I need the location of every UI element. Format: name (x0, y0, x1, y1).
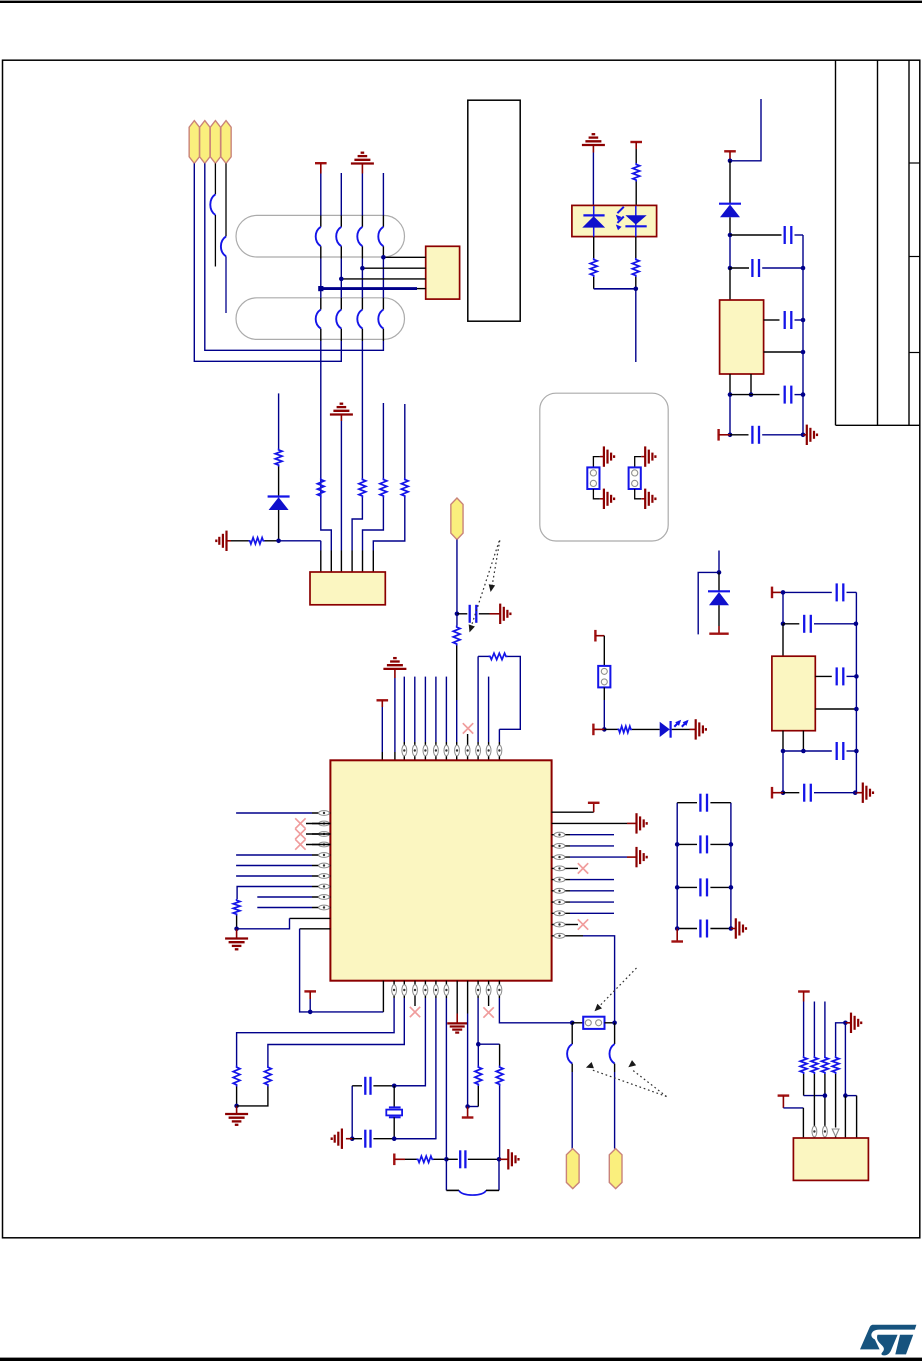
wire MCU top pin x=425.4 (424, 677, 426, 742)
wire L1 net (236, 812, 312, 814)
wire MCU top pin x=404.3 (403, 677, 405, 742)
pin marker right R9 (554, 900, 565, 905)
pin marker right R3 (554, 832, 565, 837)
wire jumper left leg with arc (571, 1023, 573, 1044)
wire V4 vertical x=383.4 to pin P2 (382, 173, 384, 216)
choke stadium L2 outline (236, 298, 405, 340)
MCU right pin R8 stub (552, 890, 570, 892)
wire R8 to bottom rail (593, 277, 595, 289)
wire R2 to earth (552, 822, 627, 824)
wire R20 to block pin (813, 1074, 815, 1138)
wire jumper right leg with arc (614, 1023, 616, 1044)
wire U2 pinA (383, 256, 425, 258)
MCU right pin R11 stub (552, 924, 570, 926)
wire R9 to junction (635, 277, 637, 289)
wire top-right input (730, 99, 761, 161)
pin marker right R5 (554, 855, 565, 860)
crystal Y1 (393, 1086, 395, 1107)
wire pull line 2 (813, 1002, 815, 1057)
capacitor C11 (352, 1085, 362, 1087)
wire V6 vertical x=404.8 (404, 404, 406, 478)
wire V2 vertical x=341.3 to pin P1 (340, 173, 342, 216)
regulator U6 block (772, 656, 815, 731)
junction cap bank row 3 (675, 885, 680, 890)
resistor R2 on V3 (359, 478, 366, 498)
earth ground above SB1 (600, 456, 604, 458)
junction reset node (444, 1157, 449, 1162)
MCU left pin L2 stub (312, 823, 330, 825)
junction reg1 row2 (728, 266, 733, 271)
wire B6 to crystal bottom (435, 981, 437, 998)
wire L7 net (236, 875, 312, 877)
power tap T15 (798, 990, 810, 992)
wire reg1 left rail upper (729, 235, 731, 268)
resistor R9 vertical (632, 258, 639, 277)
cap bank right rail (730, 803, 732, 929)
pin marker block pin2 (812, 1126, 817, 1137)
small yellow block U2 (426, 246, 460, 299)
capacitor C5 row (730, 434, 749, 436)
junction reset right node (497, 1157, 502, 1162)
wire to regulator U6 (782, 624, 784, 656)
wire diode branch x=278.6 (278, 393, 280, 448)
MCU pin B11 no-connect (488, 981, 490, 1006)
wire R17 to junction (434, 1158, 447, 1160)
title block tick 3 (909, 352, 920, 354)
pin marker left L8 (319, 884, 330, 889)
junction pinD (square) (318, 286, 323, 291)
wire R22 to block pin (835, 1074, 837, 1128)
regulator U4 block (720, 300, 764, 374)
wire U4 pin to bus (764, 351, 803, 353)
bus wire right rail reg1 (802, 235, 804, 435)
earth ground (inverted) above optocoupler anode (582, 144, 605, 146)
feedback resistor R11 loop (477, 661, 479, 742)
junction at diode branch (276, 539, 281, 544)
wire LED to earth (672, 728, 690, 730)
pin marker left L4 (319, 842, 330, 847)
power tap T13 (771, 587, 773, 599)
capacitor C2 row (730, 267, 749, 269)
wire B5 to crystal top (424, 981, 426, 998)
junction reg1 bottom row (728, 433, 733, 438)
earth ground (inverted) on V3 top (351, 162, 374, 164)
wire ground to R6 (231, 540, 249, 542)
wire T16 to block pin1 (783, 1107, 803, 1109)
capacitor C14 (783, 591, 832, 593)
resistor R21 vertical (821, 1056, 828, 1074)
junction reg2 bottom row (781, 790, 786, 795)
wire U2 pinB (362, 267, 425, 269)
interface block U7 (793, 1138, 868, 1180)
pin marker left L6 (319, 863, 330, 868)
wire R8 net (570, 890, 614, 892)
power bar below D3 (709, 633, 728, 635)
resistor R18 horizontal (618, 726, 633, 732)
junction crystal top (392, 1084, 397, 1089)
capacitor C16 (815, 675, 832, 677)
power tap T6 (304, 990, 316, 992)
MCU right pin R5 stub (552, 856, 570, 858)
pin marker left L5 (319, 853, 330, 858)
wire node down leg (844, 1023, 846, 1096)
annotation dashed arrow to C6 (492, 540, 500, 586)
transceiver block U1 (310, 572, 385, 605)
wire B7 reset line (445, 981, 447, 998)
wire earth to optocoupler (592, 153, 594, 206)
pin marker right R7 (554, 877, 565, 882)
wire to resistor R18 (604, 728, 617, 730)
annotation dotted arrow to left arc (592, 1070, 667, 1097)
junction C6 node (455, 612, 460, 617)
junction pinA (381, 255, 386, 260)
junction ground node left (234, 927, 239, 932)
resistor R7 vertical (633, 163, 640, 182)
title block bottom line (836, 424, 920, 426)
junction reg2 row1 (781, 590, 786, 595)
diode D3 (708, 590, 730, 592)
wire D2 to junction (729, 217, 731, 235)
wire reg2 left rail lower (782, 751, 784, 793)
wire R3 net (570, 834, 614, 836)
wire R9 net (570, 901, 614, 903)
capacitor C17 (783, 750, 832, 752)
connector pin P2 (200, 121, 210, 164)
junction pinC (339, 277, 344, 282)
junction B10 node (476, 1042, 481, 1047)
optocoupler U3 body (572, 205, 657, 236)
earth ground right of LED (695, 719, 697, 739)
power tap T10 vertical bar (393, 1154, 395, 1166)
solder bridge SB2 top wire (635, 457, 642, 468)
connector pin P6 (566, 1149, 579, 1189)
junction cap bank row 2 (675, 842, 680, 847)
resistor R19 vertical (800, 1056, 807, 1074)
junction T3 (728, 159, 733, 164)
pin marker right R4 (554, 844, 565, 849)
optocoupler photodiode (635, 206, 637, 237)
wire to block pin5 (844, 1096, 846, 1138)
junction lower right (843, 1093, 848, 1098)
wire R1 to power tap T7 (552, 811, 594, 813)
MCU left pin L1 stub (312, 812, 330, 814)
pin marker block pin3 (823, 1126, 828, 1137)
MCU right pin R9 stub (552, 901, 570, 903)
wire crystal bottom to B6 net (394, 1138, 436, 1140)
wire R6 to junction (265, 540, 279, 542)
junction crystal bottom-left (350, 1136, 355, 1141)
annotation dotted arrow to JP1 (598, 968, 637, 1008)
capacitor C15 (783, 623, 799, 625)
power tap T4 left (717, 429, 719, 441)
wire junction to resistor R16 (478, 1043, 499, 1045)
pin marker bottom B5 (423, 985, 428, 996)
diode D1 (268, 495, 290, 497)
earth ground right of C6 (490, 613, 501, 615)
MCU right pin R6 stub (552, 867, 570, 869)
wire R7 net (570, 879, 614, 881)
wire B9 down (467, 981, 469, 1014)
wire U4 bottom pins (729, 374, 731, 395)
wire R15 top to junction (477, 1044, 479, 1065)
capacitor C12 (352, 1138, 362, 1140)
wire L9 net (257, 896, 312, 898)
solder bridge SB1 top wire (593, 457, 600, 468)
pin marker top x=435.9 (434, 745, 439, 756)
junction reg1 row1 (728, 233, 733, 238)
resistor R13 vertical (233, 1066, 240, 1087)
pin marker left L1 (319, 811, 330, 816)
resistor R3 on V5 (380, 478, 387, 498)
choke arc on V1 upper (316, 227, 321, 246)
reset loop bottom with arc (446, 1189, 459, 1191)
MCU pin9 stub with no-connect cross (467, 734, 469, 760)
wire R4 net (570, 845, 614, 847)
wire R19 to row join (803, 1074, 805, 1096)
no-connect cross R11 (570, 924, 578, 926)
power tap T9 below B9 node (467, 1107, 469, 1118)
pin marker bottom B6 (434, 985, 439, 996)
connector pin P3 (210, 121, 220, 164)
resistor R8 vertical (590, 258, 597, 277)
junction reg2 bottom right (853, 790, 858, 795)
wire earth to pin3 (340, 421, 342, 551)
wire R5 to earth (570, 856, 627, 858)
junction zener node (717, 570, 722, 575)
junction LED node (602, 727, 607, 732)
wire R18 to LED (632, 728, 660, 730)
pin marker bottom B2 (392, 985, 397, 996)
earth ground left of R6 (225, 531, 227, 551)
solder bridge SB1 bottom wire (593, 489, 600, 499)
wire junction to MCU-box pin1 (279, 540, 321, 542)
wire R7 to optocoupler (635, 182, 637, 206)
wire MCU top pin x=435.9 (435, 677, 437, 742)
pin marker top pin12 (497, 745, 502, 756)
wire node to resistor R22 (836, 1023, 846, 1056)
capacitor C3 row (764, 319, 780, 321)
wire V1 vertical x=320.8 (320, 174, 322, 216)
wires U6 bottom pins (782, 731, 784, 751)
junction bus bottom (801, 433, 806, 438)
wire MCU top pin x=414.8 (414, 677, 416, 742)
MCU left pin L8 stub (312, 886, 330, 888)
LED D4 (660, 722, 670, 737)
junction pinB (360, 266, 365, 271)
wire B1 to VDD node (382, 981, 384, 1012)
MCU right pin R4 stub (552, 845, 570, 847)
MCU left pin L7 stub (312, 875, 330, 877)
wire P5 down to junction (456, 540, 458, 614)
wire R14 to ground junction (237, 1087, 268, 1106)
resistor R12 vertical (233, 899, 240, 916)
choke arc on V3 upper (357, 227, 362, 246)
pin marker left L10 (319, 905, 330, 910)
pin marker right R10 (554, 911, 565, 916)
earth ground right of C5 (803, 434, 807, 436)
wire L6 net (236, 865, 312, 867)
MCU left pin L4 stub (312, 844, 330, 846)
solder bridge SB2 body (629, 467, 641, 489)
pin marker bottom B3 (402, 985, 407, 996)
diode D2 (719, 203, 741, 205)
capacitor C7 (677, 802, 697, 804)
junction ground bottom-left (234, 1104, 239, 1109)
power tap T2 above optocoupler resistor (630, 141, 642, 143)
no-connect cross R6 (570, 867, 578, 869)
annotation dotted arrow to R10 (471, 541, 499, 627)
choke stadium L1 outline (236, 215, 405, 257)
wire R10 net (570, 912, 614, 914)
wire V3 vertical x=362.4 (361, 174, 363, 216)
power tap T14 (771, 787, 773, 799)
junction jumper right (612, 1021, 617, 1026)
wire reg2 right rail (855, 592, 857, 792)
earth ground below B8 (447, 1022, 467, 1024)
crystal left rail (351, 1086, 353, 1139)
power tap T3 (724, 150, 736, 152)
wire B9 node to resistor R15 (468, 1106, 479, 1108)
pin marker bottom B12 (497, 985, 502, 996)
wire R21 to block pin (824, 1074, 826, 1138)
pin marker right R11 (554, 922, 565, 927)
pin marker top x=414.8 (412, 745, 417, 756)
wire T5 to MCU pin1 (381, 707, 383, 752)
wire L11 to ground junction (290, 917, 331, 919)
wire to regulator U4 (729, 268, 731, 300)
bus wire U2 pinD (417, 288, 426, 290)
resistor R16 vertical (496, 1066, 503, 1087)
earth ground left of crystal (346, 1138, 352, 1140)
resistor R4 on V6 (401, 478, 408, 498)
wire stub from pin P3 with arc (214, 163, 216, 194)
wire B2 to resistor R13 (393, 981, 395, 998)
title block column line 1 (835, 60, 837, 425)
power tap T1 for net V1 (315, 162, 327, 164)
wire T2 to resistor R7 (635, 149, 637, 163)
MCU left pin L10 stub (312, 907, 330, 909)
wire R12 down to jumper node (570, 935, 583, 937)
title block tick 2 (909, 256, 920, 258)
pin marker left L7 (319, 874, 330, 879)
junction bus row2 (801, 266, 806, 271)
wire L10 net (257, 907, 312, 909)
solder bridge SB1 body (587, 467, 599, 489)
wire T11 to jumper JP2 (603, 636, 605, 666)
capacitor C1 row (730, 234, 782, 236)
wire zener input (718, 551, 720, 573)
pin marker left L9 (319, 895, 330, 900)
wire B12 to jumper row (498, 981, 500, 998)
microcontroller U5 body (330, 760, 551, 980)
triangle marker block pin4 (832, 1129, 839, 1137)
page header bar (0, 1, 922, 3)
resistor R15 vertical (475, 1066, 482, 1087)
resistor R17 horizontal (417, 1156, 434, 1162)
wire zener branch left (698, 572, 719, 634)
pin marker top pin8 (455, 745, 460, 756)
no-connect cross L3 (306, 833, 330, 835)
wire reg2 left rail upper (782, 592, 784, 623)
wire JP2 down (603, 687, 605, 700)
MCU left pin L6 stub (312, 865, 330, 867)
junction cap bank row 4 (675, 926, 680, 931)
jumper JP1 body (572, 1022, 583, 1024)
earth ground right of C18 (855, 792, 862, 794)
junction crystal bottom (392, 1136, 397, 1141)
earth ground below R13 (236, 1106, 238, 1114)
connector pin P5 (vertical hex) (451, 498, 463, 540)
choke arc on V4 upper (378, 227, 383, 246)
capacitor C9 (677, 886, 697, 888)
wire L8 to resistor R12 (237, 887, 312, 900)
resistor R5 on diode branch (275, 449, 282, 467)
wire below LED (593, 237, 595, 258)
MCU left pin L9 stub (312, 896, 330, 898)
wire R16 down to RC node (499, 1086, 501, 1159)
pin marker top x=425.4 (423, 745, 428, 756)
choke arc on V2 lower (336, 310, 341, 329)
pin marker right R6 (554, 866, 565, 871)
capacitor C18 (783, 792, 799, 794)
capacitor C8 (677, 843, 697, 845)
capacitor C10 (677, 928, 697, 930)
MCU right pin R10 stub (552, 912, 570, 914)
MCU right pin R12 stub (552, 935, 570, 937)
earth ground below SB1 (600, 498, 604, 500)
no-connect cross L4 (306, 844, 330, 846)
cap bank left rail (676, 803, 678, 929)
wire stub from pin P4 with arc (225, 163, 227, 236)
wire below photodiode (635, 237, 637, 258)
wire crystal top to B5 net (394, 1085, 425, 1087)
resistor R1 on V1 (317, 478, 324, 498)
MCU left pin L5 stub (312, 854, 330, 856)
junction VDD node bottom-left (308, 1010, 313, 1015)
wire to diode D2 (729, 161, 731, 204)
solder bridge SB2 bottom wire (635, 489, 642, 499)
choke arc on V4 lower (378, 310, 383, 329)
wire L12 to VDD junction (300, 928, 331, 930)
wire R12 to ground junction (236, 916, 238, 929)
MCU left pin L3 stub (312, 833, 330, 835)
earth ground (inverted) MCU pin2 (383, 668, 406, 670)
junction opto bottom (634, 287, 639, 292)
pin marker top x=404.3 (402, 745, 407, 756)
jumper JP2 body (598, 666, 610, 688)
wire pull line 3 (824, 1002, 826, 1057)
capacitor C4 row (730, 394, 780, 396)
choke arc on V1 lower (316, 310, 321, 329)
earth ground below R12 (236, 929, 238, 939)
wire R10 to MCU pin8 (456, 646, 458, 701)
optocoupler LED (593, 206, 595, 237)
wire L5 net (236, 854, 312, 856)
title block column line 2 (877, 60, 879, 425)
connector pin P7 (609, 1149, 622, 1189)
wire D3 to power bar (718, 605, 720, 626)
junction ground node right (843, 1021, 848, 1026)
pin marker top pin10 (476, 745, 481, 756)
power tap T16 (778, 1094, 790, 1096)
earth ground below SB2 (641, 498, 645, 500)
pin marker top x=446.4 (444, 745, 449, 756)
wire U6 pin to right rail (815, 708, 856, 710)
power tap T11 (594, 630, 596, 642)
MCU right pin R7 stub (552, 879, 570, 881)
resistor R10 vertical (453, 626, 460, 646)
earth ground (inverted) feeding pin3 of transceiver block (330, 413, 353, 415)
